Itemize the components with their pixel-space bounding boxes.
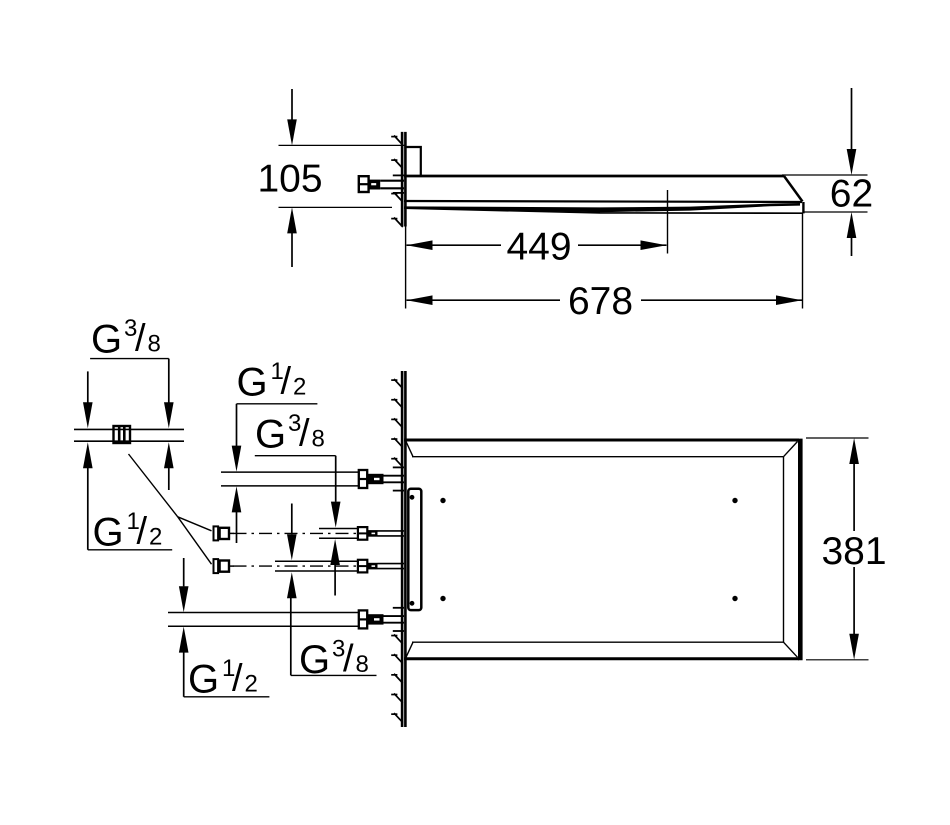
label G1/2 (left) underline	[88, 549, 172, 551]
fitting flange stubs at wall	[393, 175, 404, 193]
svg-text:/: /	[232, 658, 243, 700]
wall (side view)	[402, 132, 405, 227]
detail dim left arrows	[83, 371, 93, 549]
leader branch to fitting F1	[178, 517, 212, 531]
G3/8 detail pipe	[74, 429, 184, 441]
row2 wall connector body	[367, 530, 404, 537]
dim 449 right extension line	[667, 190, 669, 254]
svg-text:8: 8	[312, 426, 325, 453]
svg-text:105: 105	[257, 158, 322, 201]
label G3/8 (detail)	[91, 315, 161, 362]
wall hatch (plan view)	[391, 379, 403, 723]
dim 449/678 left extension line	[405, 227, 407, 309]
label G3/8 (bottom) bracket and up arrow	[287, 572, 377, 675]
head screw dots	[440, 498, 737, 601]
dim 62 extension lines	[782, 175, 868, 212]
head bevel to tip	[784, 176, 803, 202]
row4 flange stubs	[393, 608, 404, 631]
row4 wall connector nut	[359, 610, 367, 628]
svg-text:G: G	[255, 413, 286, 457]
detail dim right arrows	[164, 359, 174, 490]
shower head side profile: top edge	[404, 175, 784, 178]
svg-text:381: 381	[821, 530, 886, 573]
svg-text:G: G	[91, 318, 122, 362]
dim 381 line and arrows	[849, 438, 859, 660]
svg-text:62: 62	[830, 173, 873, 216]
svg-text:/: /	[137, 511, 148, 553]
svg-text:/: /	[135, 318, 146, 360]
label G3/8 (top) bracket	[255, 456, 341, 528]
mounting plate	[408, 489, 421, 610]
svg-text:/: /	[343, 638, 354, 680]
spray nozzle band	[404, 203, 800, 212]
svg-text:8: 8	[148, 331, 161, 358]
mounting plate screw dots	[410, 495, 415, 606]
leader diagonal from detail	[129, 454, 178, 517]
svg-text:2: 2	[245, 671, 258, 698]
dim 381 extension lines	[806, 438, 869, 660]
row3 wall connector body	[367, 563, 404, 570]
dim 678 right extension line	[802, 214, 804, 309]
row3 wall connector nut	[358, 560, 367, 573]
row4 supply pipe G1/2	[168, 613, 359, 627]
svg-text:2: 2	[149, 524, 162, 551]
wall (plan view)	[402, 371, 405, 727]
label G3/8 (top)	[255, 410, 325, 457]
svg-text:2: 2	[293, 374, 306, 401]
svg-text:449: 449	[506, 226, 571, 269]
label G1/2 (left)	[93, 508, 163, 555]
wall hatch (side view)	[391, 136, 403, 228]
label G3/8 (detail) bracket	[90, 358, 169, 360]
svg-text:678: 678	[568, 280, 633, 323]
inlet elbow behind head	[406, 147, 421, 176]
screw fitting S1 shaft	[369, 180, 404, 190]
row2 pipe G3/8	[319, 529, 358, 539]
label G1/2 (bottom) bracket and up arrow	[179, 627, 270, 697]
dim 678 line and arrows	[407, 295, 803, 305]
loose fitting F2 (G1/2)	[214, 559, 235, 573]
row1 wall connector nut	[359, 470, 367, 488]
row3 pipe G3/8	[275, 561, 358, 571]
dim 62 arrows	[847, 88, 857, 256]
svg-text:G: G	[188, 658, 219, 702]
row1 supply pipe G1/2	[221, 472, 359, 486]
svg-text:/: /	[299, 413, 310, 455]
row1 lower arrow (up)	[232, 486, 242, 543]
head bottom edge	[404, 208, 803, 213]
dim 449 line and arrows	[407, 240, 667, 250]
head tip end cap	[802, 202, 804, 213]
G3/8 detail coupling	[114, 426, 131, 443]
head plan inner frame	[412, 457, 784, 643]
label G1/2 (bottom)	[188, 655, 258, 702]
row4 upper arrow (down)	[179, 558, 189, 612]
row4 wall connector body	[367, 614, 404, 624]
head rim line	[404, 201, 802, 202]
head plan outline outer	[404, 439, 800, 661]
svg-text:8: 8	[356, 651, 369, 678]
row1 flange stubs	[393, 467, 404, 490]
label G1/2 (top) bracket	[232, 404, 318, 472]
row2 centerline (dash-dot)	[234, 532, 358, 534]
svg-text:G: G	[93, 511, 124, 555]
row2 wall connector nut	[358, 527, 367, 540]
head plan chamfer diagonals	[406, 442, 798, 658]
loose fitting F1 (G1/2)	[214, 526, 235, 540]
svg-text:/: /	[281, 361, 292, 403]
row3 centerline (dash-dot)	[234, 565, 358, 567]
screw fitting S1 head	[359, 176, 369, 192]
dim 105 arrows	[287, 89, 297, 267]
row1 wall connector body	[367, 474, 404, 484]
svg-text:G: G	[237, 361, 268, 405]
row3 upper arrow (down)	[287, 504, 297, 561]
label G1/2 (top)	[237, 358, 307, 405]
label G3/8 (bottom)	[299, 636, 369, 683]
leader branch to fitting F2	[178, 517, 212, 564]
row2 lower arrow (up)	[330, 539, 340, 596]
dim 105 extension lines	[279, 145, 407, 207]
